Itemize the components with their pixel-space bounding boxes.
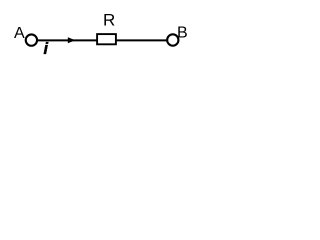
resistor R body <box>97 34 116 44</box>
svg-text:B: B <box>177 25 188 42</box>
svg-text:i: i <box>43 39 49 58</box>
svg-text:R: R <box>103 11 115 30</box>
terminal A (open circle) <box>26 34 37 45</box>
wire A to resistor <box>37 39 97 41</box>
current arrowhead <box>68 37 76 43</box>
svg-text:A: A <box>14 25 25 42</box>
wire resistor to B <box>116 39 168 41</box>
terminal B (open circle) <box>167 34 178 45</box>
